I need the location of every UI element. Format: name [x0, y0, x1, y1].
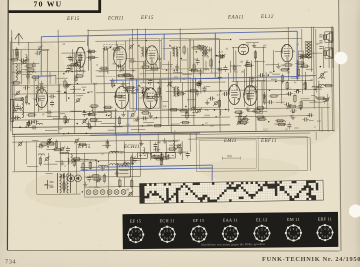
wire: [167, 61, 170, 125]
wire: [101, 122, 115, 124]
capacitor C63: [309, 113, 311, 117]
capacitor C42: [223, 67, 227, 69]
wire: [150, 52, 152, 70]
wire: [32, 140, 38, 142]
coil stack input L2: [22, 97, 24, 117]
wire: [11, 30, 14, 127]
capacitor C40: [197, 83, 201, 85]
wire: [46, 49, 48, 111]
wire: [76, 159, 84, 161]
wire: [247, 111, 257, 113]
wire: [332, 28, 335, 132]
node junction: [83, 110, 85, 112]
coil L15: [312, 86, 321, 88]
coil L28: [110, 164, 119, 166]
wire: [94, 186, 100, 188]
wire: [126, 77, 135, 79]
ground: [124, 85, 128, 90]
node junction: [214, 109, 216, 111]
wire: [96, 69, 136, 72]
resistor R93: [63, 183, 65, 189]
capacitor C38: [198, 71, 202, 73]
node junction: [68, 133, 70, 135]
capacitor C7: [15, 106, 19, 108]
wire: [181, 141, 183, 160]
wire: [85, 196, 141, 199]
capacitor C58: [153, 144, 157, 146]
wire: [318, 81, 320, 131]
resistor R67: [302, 65, 308, 67]
IF can right: [298, 51, 303, 67]
wire: [94, 83, 96, 126]
coil L30: [277, 121, 286, 123]
resistor R97: [74, 158, 80, 160]
wire (blue signal path): [163, 34, 166, 60]
wire (blue signal path): [110, 76, 297, 80]
wire: [25, 141, 27, 164]
wire (blue signal path): [90, 133, 200, 135]
svg-text:734: 734: [5, 258, 16, 265]
node junction: [132, 70, 134, 72]
wire: [11, 37, 14, 134]
tube V1 EF15: [76, 47, 85, 67]
wire: [132, 60, 146, 62]
ground: [207, 47, 211, 52]
wire: [176, 51, 178, 73]
trimmer/contact: [96, 178, 101, 183]
coil L8: [73, 86, 75, 92]
left page rule: [6, 0, 9, 250]
resistor R102: [271, 95, 277, 97]
trimmer/contact: [47, 138, 52, 143]
resistor R7: [26, 65, 32, 67]
wire: [82, 86, 87, 88]
wire: [305, 72, 307, 90]
resistor R82: [156, 158, 162, 160]
IF transformer at 176,53: [169, 45, 178, 57]
wire: [85, 158, 95, 160]
wire: [200, 70, 202, 94]
node junction: [86, 133, 88, 135]
wire: [95, 161, 97, 187]
wire: [254, 46, 266, 48]
wire: [309, 120, 314, 122]
svg-text:EAA11: EAA11: [227, 15, 244, 20]
speaker LS1: [323, 32, 333, 43]
wire: [11, 41, 85, 44]
trimmer/contact: [128, 191, 133, 196]
wire: [139, 97, 153, 99]
wire: [189, 133, 191, 152]
wire: [87, 29, 89, 70]
resistor R89: [94, 178, 100, 180]
ground: [60, 160, 64, 165]
capacitor C60: [156, 148, 158, 152]
wire: [169, 144, 182, 146]
resistor R96: [119, 180, 121, 186]
resistor R52: [281, 76, 283, 82]
wire: [41, 49, 49, 51]
capacitor C50: [289, 92, 291, 96]
ground: [175, 64, 179, 69]
ground: [86, 121, 90, 126]
tube socket EF 15: [190, 225, 207, 242]
node junction: [166, 70, 168, 72]
capacitor C65: [287, 102, 289, 106]
wire: [202, 48, 204, 73]
ground: [162, 138, 166, 143]
wire: [323, 46, 325, 68]
wire: [140, 81, 226, 84]
resistor R1: [33, 76, 39, 78]
wire: [211, 47, 213, 72]
wire: [179, 28, 181, 82]
wire: [275, 50, 284, 52]
trimmer/contact: [82, 119, 87, 124]
wire right column: [302, 29, 317, 94]
right page rule: [339, 0, 341, 251]
wire: [145, 69, 158, 71]
wire: [159, 62, 162, 126]
wire: [276, 101, 285, 103]
trimmer/contact: [130, 112, 135, 117]
wire: [44, 184, 53, 186]
capacitor C26: [119, 64, 121, 68]
wire: [46, 173, 53, 175]
capacitor C14: [51, 94, 53, 98]
wire: [93, 111, 107, 113]
tube V6 EF15: [115, 86, 129, 108]
resistor R92: [130, 181, 132, 187]
resistor R72: [254, 52, 256, 58]
resistor R36: [114, 48, 120, 50]
svg-text:EBF11: EBF11: [260, 139, 277, 144]
ground: [88, 124, 92, 129]
wire: [35, 142, 37, 194]
wire: [46, 143, 54, 145]
resistor R78: [55, 148, 61, 150]
wire: [254, 61, 265, 63]
coil L25: [173, 141, 175, 150]
wire: [13, 134, 15, 171]
resistor R42: [193, 47, 199, 49]
capacitor C30: [197, 82, 199, 86]
wire (blue signal path): [80, 165, 212, 167]
wire: [65, 84, 67, 102]
wire: [173, 133, 175, 152]
coil L13: [203, 69, 209, 71]
coil L6: [67, 65, 76, 67]
node junction: [237, 98, 239, 100]
wire: [59, 113, 65, 115]
capacitor C45: [305, 118, 307, 122]
svg-text:EAA 11: EAA 11: [223, 217, 238, 222]
node junction: [288, 68, 290, 70]
wire: [115, 134, 117, 177]
chassis divider: [257, 137, 259, 171]
wire: [95, 39, 161, 42]
node junction: [77, 83, 79, 85]
ground: [148, 113, 152, 118]
wire: [281, 81, 283, 104]
wire: [187, 99, 196, 101]
node junction: [19, 127, 21, 129]
node junction: [292, 112, 294, 114]
wire: [137, 29, 140, 133]
band switch program chart: [140, 180, 324, 203]
capacitor C61: [62, 174, 64, 178]
rectifier B1: [68, 175, 82, 182]
wire: [135, 109, 150, 111]
capacitor C54: [323, 99, 327, 101]
IF can box 4: [130, 78, 160, 108]
node junction: [36, 104, 38, 106]
resistor R88: [163, 157, 169, 159]
wire: [194, 108, 199, 110]
resistor R87: [160, 159, 162, 165]
node junction: [146, 40, 148, 42]
resistor R40: [178, 92, 184, 94]
capacitor cluster right: [319, 35, 322, 49]
capacitor C2: [37, 98, 39, 102]
capacitor C1: [16, 116, 18, 120]
ground: [130, 87, 134, 92]
resistor R83: [153, 155, 159, 157]
wire: [256, 60, 258, 109]
node junction: [142, 125, 144, 127]
wire: [12, 92, 86, 95]
resistor R95: [82, 164, 84, 170]
power transformer T1: [57, 173, 70, 193]
node junction: [185, 106, 187, 108]
svg-text:Anschlüsse von unten gegen die: Anschlüsse von unten gegen die Röhre ges…: [201, 242, 265, 247]
wire: [53, 118, 67, 120]
resistor R61: [289, 105, 295, 107]
tube socket EM 11: [285, 224, 302, 241]
resistor R50: [181, 110, 187, 112]
trimmer/contact: [220, 54, 225, 59]
wire (blue signal path): [36, 75, 52, 77]
resistor R80: [55, 141, 57, 147]
wire: [218, 40, 221, 132]
coil stack input L1: [16, 63, 18, 80]
node junction: [186, 112, 188, 114]
wire: [311, 95, 315, 97]
wire: [124, 41, 127, 111]
resistor R28: [124, 74, 130, 76]
wire: [232, 47, 246, 49]
wire: [143, 122, 154, 124]
wire: [173, 71, 182, 73]
node junction: [230, 39, 232, 41]
ground: [18, 106, 22, 111]
node junction: [116, 104, 118, 106]
wire: [75, 142, 77, 194]
IF transformer at 176.5,93: [170, 85, 179, 97]
wire (blue signal path): [194, 78, 197, 112]
wire: [115, 41, 117, 83]
resistor R57: [301, 55, 307, 57]
wire: [91, 121, 102, 123]
wire (blue signal path): [211, 165, 214, 181]
speaker LS2: [323, 48, 333, 59]
coil L22: [140, 153, 149, 155]
node junction: [273, 71, 275, 73]
tube V2 ECH11: [113, 46, 126, 66]
wire: [256, 79, 265, 81]
node junction: [87, 92, 89, 94]
capacitor C62: [87, 178, 91, 180]
coil L23: [109, 151, 118, 153]
wire (blue signal path): [248, 77, 251, 95]
svg-text:EF15: EF15: [140, 16, 154, 21]
trimmer/contact: [237, 120, 242, 125]
capacitor C31: [219, 67, 221, 71]
node junction: [300, 108, 302, 110]
wire: [139, 133, 141, 176]
trimmer/contact: [129, 44, 134, 49]
capacitor C27: [105, 46, 107, 50]
coil L11: [110, 112, 112, 118]
wire: [265, 72, 267, 109]
tube V9 EBF11: [244, 85, 257, 105]
trimmer/contact: [44, 156, 49, 161]
trimmer/contact: [38, 45, 43, 50]
wire: [194, 58, 198, 60]
wire: [250, 60, 252, 94]
ground: [121, 112, 125, 117]
wire: [55, 75, 57, 84]
wire (blue signal path): [35, 76, 37, 81]
capacitor C57: [133, 158, 137, 160]
wire: [181, 114, 195, 116]
node junction: [215, 116, 217, 118]
wire: [232, 89, 322, 90]
trimmer/contact: [76, 98, 81, 103]
node junction: [244, 123, 246, 125]
wire: [84, 176, 140, 179]
wire: [234, 108, 330, 109]
ground: [139, 141, 143, 146]
resistor R70: [304, 83, 306, 89]
wire: [76, 63, 78, 75]
svg-text:ECH11: ECH11: [123, 145, 140, 150]
node junction: [40, 51, 42, 53]
wire: [72, 49, 74, 62]
node junction: [148, 82, 150, 84]
wire: [103, 49, 105, 111]
ground: [252, 43, 256, 48]
tube V8 EM11: [228, 85, 240, 105]
capacitor C19: [66, 69, 70, 71]
wire: [195, 133, 197, 140]
tube socket EAA 11: [222, 225, 239, 242]
ground: [65, 83, 69, 88]
wire (blue signal path): [214, 34, 217, 78]
wire: [11, 48, 49, 50]
resistor R10: [41, 86, 43, 92]
capacitor C48: [292, 109, 294, 113]
node junction: [157, 82, 159, 84]
capacitor C28: [144, 116, 146, 120]
wire: [89, 186, 98, 188]
wire: [231, 93, 239, 95]
node junction: [156, 117, 158, 119]
wire: [273, 50, 275, 72]
ground: [25, 57, 29, 62]
node junction: [110, 47, 112, 49]
wire: [13, 50, 15, 112]
node junction: [155, 64, 157, 66]
wire: [310, 27, 312, 72]
wire: [28, 42, 30, 84]
node junction: [214, 109, 216, 111]
wire: [192, 111, 198, 113]
node junction: [63, 133, 65, 135]
wire: [131, 152, 133, 196]
resistor R19: [64, 81, 66, 87]
resistor R25: [116, 95, 122, 97]
wire: [59, 142, 61, 171]
wire: [131, 29, 134, 111]
svg-text:EBF 11: EBF 11: [318, 216, 332, 221]
wire: [271, 78, 277, 80]
wire: [162, 100, 168, 102]
resistor R66: [285, 64, 291, 66]
wire: [187, 48, 190, 117]
resistor R15: [79, 54, 81, 60]
ground: [218, 74, 222, 79]
resistor R29: [105, 106, 111, 108]
ground: [157, 55, 161, 60]
ground: [205, 100, 209, 105]
resistor R24: [152, 67, 158, 69]
wire: [108, 129, 115, 131]
wire: [219, 69, 229, 71]
resistor R100: [318, 97, 324, 99]
wire: [45, 129, 58, 131]
oscillator shield box: [103, 44, 125, 76]
ground: [100, 166, 104, 171]
resistor R44: [186, 112, 188, 118]
resistor R49: [171, 109, 177, 111]
node junction: [320, 66, 322, 68]
node junction: [107, 142, 109, 144]
wire: [60, 84, 71, 86]
wire: [192, 40, 195, 125]
resistor R68: [294, 95, 296, 101]
capacitor C11: [50, 103, 54, 105]
capacitor C64: [298, 106, 302, 108]
wire: [162, 63, 173, 65]
wire: [229, 61, 231, 73]
trimmer/contact: [320, 72, 325, 77]
capacitor C34: [211, 97, 213, 101]
punch hole bottom: [349, 204, 360, 217]
svg-text:ECH11: ECH11: [107, 17, 124, 22]
wire: [313, 27, 316, 109]
capacitor C33: [196, 60, 200, 62]
ground: [69, 65, 73, 70]
wire: [44, 163, 58, 165]
wire: [206, 85, 210, 87]
resistor R35: [143, 112, 149, 114]
wire (blue signal path): [87, 36, 89, 46]
chassis inner box: [199, 140, 256, 169]
wire: [265, 64, 278, 66]
wire: [12, 125, 230, 128]
wire: [46, 148, 55, 150]
